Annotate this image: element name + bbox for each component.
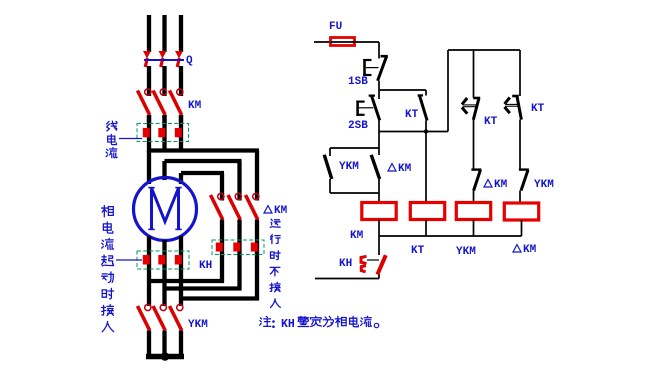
svg-text:YKM: YKM bbox=[188, 319, 208, 331]
svg-text:KM: KM bbox=[350, 230, 364, 242]
svg-text:KT: KT bbox=[405, 109, 419, 121]
svg-text:KT: KT bbox=[411, 245, 425, 257]
svg-text:KH: KH bbox=[281, 318, 295, 331]
svg-text:KM: KM bbox=[188, 100, 202, 112]
svg-text:KH: KH bbox=[339, 258, 352, 270]
svg-text:KM: KM bbox=[523, 244, 537, 256]
svg-text:FU: FU bbox=[329, 21, 342, 33]
svg-text:Q: Q bbox=[186, 55, 193, 67]
svg-text:2SB: 2SB bbox=[348, 120, 368, 132]
svg-text:KM: KM bbox=[494, 179, 508, 191]
svg-text:YKM: YKM bbox=[534, 179, 554, 191]
svg-text:YKM: YKM bbox=[339, 161, 359, 173]
svg-text:KT: KT bbox=[484, 116, 498, 128]
svg-text:KT: KT bbox=[531, 103, 545, 115]
svg-text:1SB: 1SB bbox=[348, 76, 368, 88]
svg-text:KH: KH bbox=[199, 260, 212, 272]
svg-text:KM: KM bbox=[398, 163, 412, 175]
svg-text:KM: KM bbox=[274, 205, 288, 217]
svg-text:YKM: YKM bbox=[456, 246, 476, 258]
